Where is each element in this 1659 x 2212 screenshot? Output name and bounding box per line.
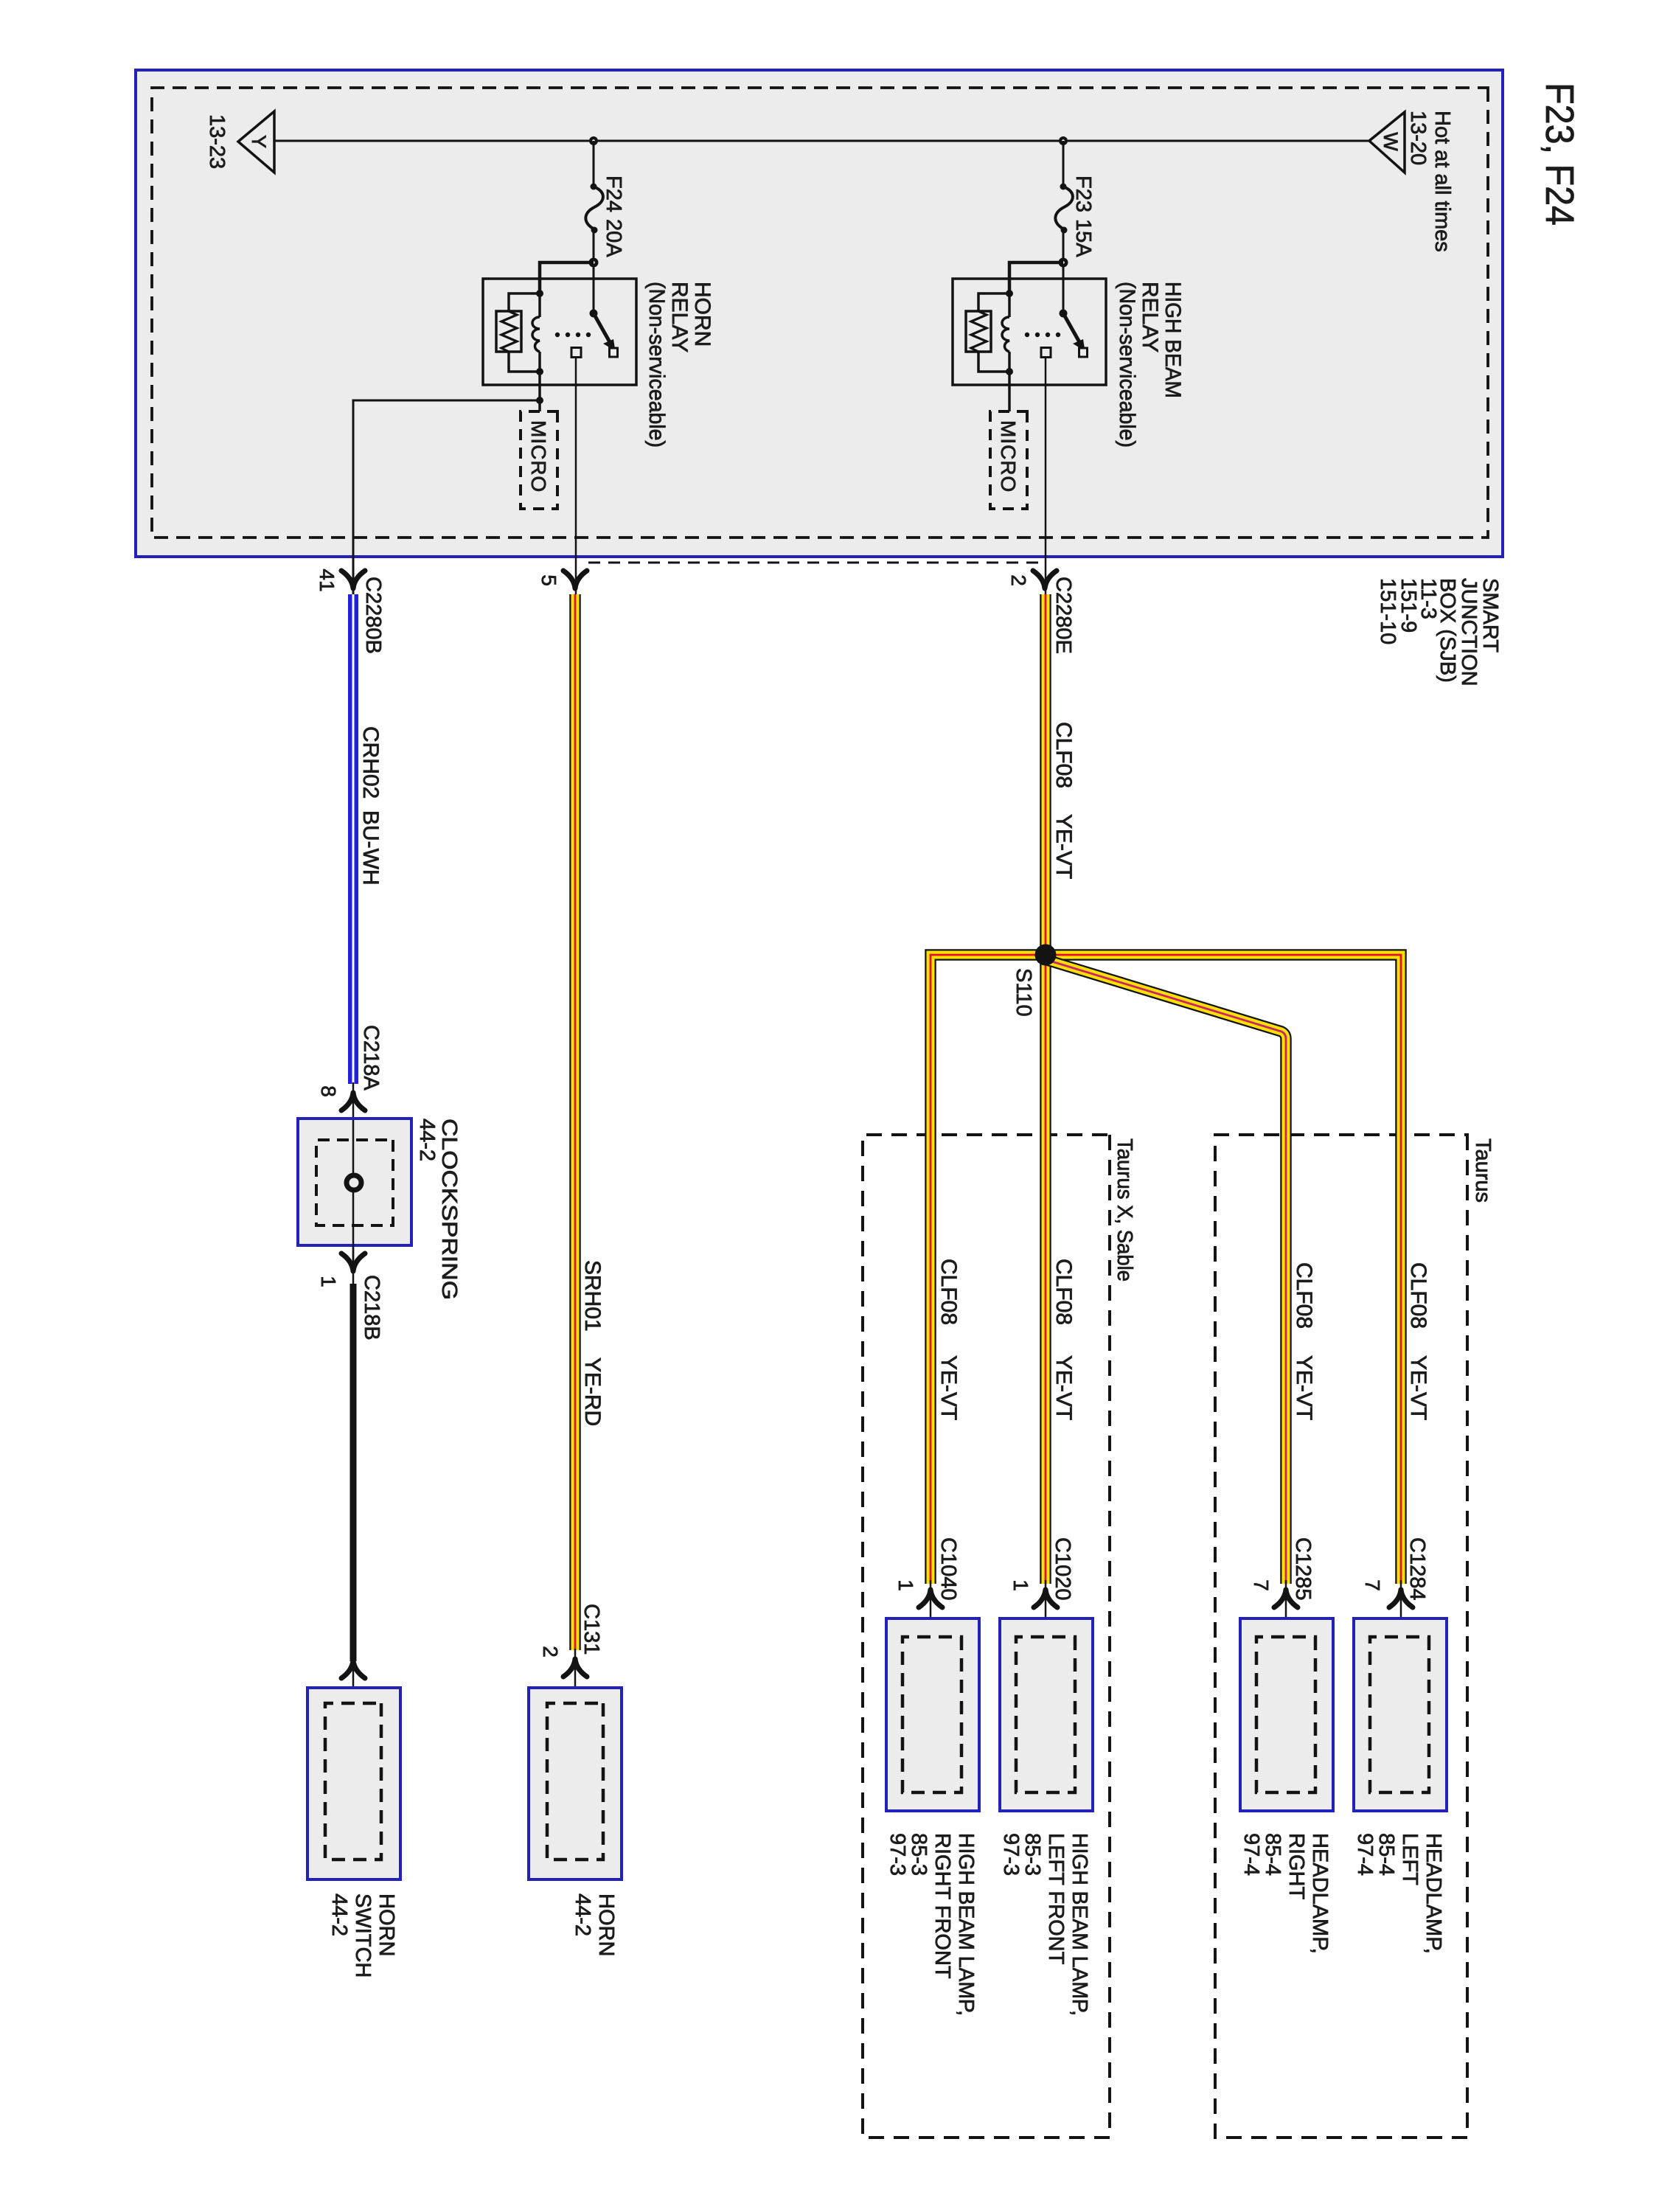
svg-text:MICRO: MICRO (997, 420, 1020, 493)
svg-text:SWITCH: SWITCH (351, 1893, 375, 1978)
svg-text:YE-VT: YE-VT (1051, 1355, 1076, 1420)
svg-text:C1285: C1285 (1291, 1537, 1315, 1600)
svg-text:97-4: 97-4 (1353, 1833, 1377, 1876)
svg-text:1: 1 (894, 1579, 917, 1591)
svg-text:CLOCKSPRING: CLOCKSPRING (437, 1119, 461, 1300)
svg-text:C218B: C218B (360, 1275, 383, 1340)
svg-text:RIGHT FRONT: RIGHT FRONT (931, 1833, 954, 1979)
svg-text:8: 8 (317, 1085, 340, 1097)
svg-text:HIGH BEAM: HIGH BEAM (1161, 282, 1185, 398)
svg-text:97-3: 97-3 (999, 1833, 1023, 1876)
svg-text:RIGHT: RIGHT (1284, 1833, 1308, 1900)
svg-text:15A: 15A (1071, 219, 1095, 257)
svg-text:85-4: 85-4 (1374, 1833, 1398, 1876)
svg-text:151-10: 151-10 (1376, 578, 1399, 644)
svg-text:C1040: C1040 (936, 1537, 960, 1600)
svg-text:HIGH BEAM LAMP,: HIGH BEAM LAMP, (1068, 1833, 1091, 2016)
svg-text:2: 2 (1007, 574, 1030, 586)
svg-text:7: 7 (1361, 1579, 1384, 1591)
svg-text:CLF08: CLF08 (1051, 722, 1076, 788)
svg-text:HIGH BEAM LAMP,: HIGH BEAM LAMP, (954, 1833, 978, 2016)
svg-text:HORN: HORN (375, 1893, 398, 1956)
svg-text:1: 1 (1009, 1579, 1032, 1591)
svg-text:F23: F23 (1071, 175, 1095, 212)
svg-text:2: 2 (539, 1646, 562, 1658)
svg-text:CLF08: CLF08 (1406, 1262, 1430, 1329)
svg-text:MICRO: MICRO (527, 420, 550, 493)
svg-text:44-2: 44-2 (571, 1893, 594, 1936)
svg-text:85-3: 85-3 (1020, 1833, 1044, 1876)
svg-text:HORN: HORN (690, 282, 714, 347)
svg-text:20A: 20A (602, 219, 625, 257)
svg-text:Taurus: Taurus (1471, 1138, 1495, 1203)
svg-text:JUNCTION: JUNCTION (1457, 578, 1481, 686)
svg-text:44-2: 44-2 (415, 1119, 439, 1161)
svg-text:F24: F24 (602, 175, 625, 212)
svg-text:C2280E: C2280E (1051, 577, 1075, 654)
svg-text:HEADLAMP,: HEADLAMP, (1422, 1833, 1445, 1954)
svg-text:7: 7 (1250, 1579, 1273, 1591)
svg-text:HORN: HORN (594, 1893, 618, 1956)
svg-text:RELAY: RELAY (1138, 282, 1162, 352)
svg-text:CLF08: CLF08 (936, 1259, 961, 1325)
svg-text:44-2: 44-2 (327, 1893, 351, 1936)
svg-text:YE-RD: YE-RD (580, 1357, 605, 1426)
svg-text:CLF08: CLF08 (1051, 1259, 1076, 1325)
svg-text:F23, F24: F23, F24 (1537, 83, 1582, 226)
svg-text:97-3: 97-3 (886, 1833, 909, 1876)
svg-text:CRH02: CRH02 (358, 726, 383, 799)
svg-text:5: 5 (538, 574, 560, 586)
svg-text:C1284: C1284 (1405, 1537, 1429, 1600)
svg-text:LEFT FRONT: LEFT FRONT (1044, 1833, 1068, 1965)
svg-text:YE-VT: YE-VT (1406, 1355, 1430, 1420)
svg-text:13-23: 13-23 (205, 114, 229, 169)
svg-text:C1020: C1020 (1051, 1537, 1074, 1600)
svg-text:(Non-serviceable): (Non-serviceable) (1115, 282, 1139, 448)
svg-text:BU-WH: BU-WH (358, 810, 383, 886)
svg-text:YE-VT: YE-VT (1292, 1355, 1316, 1420)
svg-text:C2280B: C2280B (361, 577, 385, 654)
svg-text:Taurus X, Sable: Taurus X, Sable (1113, 1138, 1136, 1281)
svg-text:RELAY: RELAY (667, 282, 692, 352)
svg-text:(Non-serviceable): (Non-serviceable) (644, 282, 669, 448)
svg-text:LEFT: LEFT (1398, 1833, 1422, 1885)
svg-text:C218A: C218A (359, 1025, 383, 1091)
svg-text:97-4: 97-4 (1239, 1833, 1263, 1876)
svg-text:HEADLAMP,: HEADLAMP, (1308, 1833, 1332, 1954)
svg-text:W: W (1380, 132, 1402, 151)
svg-text:85-3: 85-3 (907, 1833, 931, 1876)
svg-text:1: 1 (317, 1276, 340, 1287)
svg-text:Y: Y (248, 135, 270, 148)
svg-text:SRH01: SRH01 (580, 1260, 605, 1332)
svg-text:Hot at all times: Hot at all times (1430, 111, 1454, 252)
svg-text:SMART: SMART (1478, 578, 1502, 653)
svg-text:S110: S110 (1012, 968, 1035, 1017)
svg-text:C131: C131 (580, 1604, 603, 1655)
svg-text:YE-VT: YE-VT (936, 1355, 961, 1420)
svg-text:41: 41 (316, 568, 338, 591)
svg-text:YE-VT: YE-VT (1051, 814, 1076, 879)
svg-text:CLF08: CLF08 (1292, 1262, 1316, 1329)
svg-text:13-20: 13-20 (1406, 111, 1430, 165)
svg-text:85-4: 85-4 (1261, 1833, 1284, 1876)
